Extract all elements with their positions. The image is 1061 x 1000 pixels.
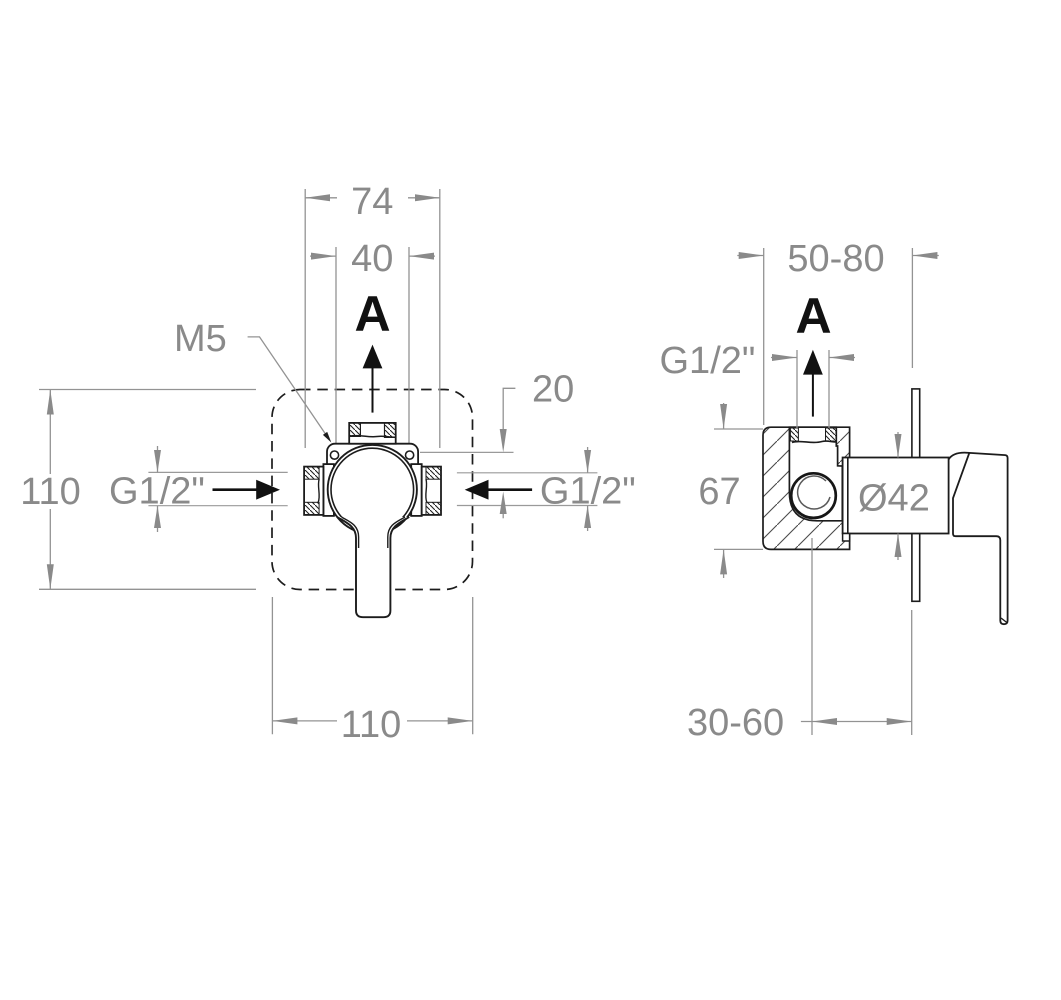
svg-text:110: 110 [341, 704, 402, 746]
dim 110 left: top extension line [39, 389, 256, 391]
dim D42 arrows [895, 432, 902, 560]
right port reference lines [457, 472, 598, 474]
svg-text:110: 110 [20, 471, 81, 513]
dim 50-80: right extension [911, 248, 913, 368]
svg-text:67: 67 [698, 471, 740, 513]
svg-text:40: 40 [351, 238, 393, 280]
svg-text:A: A [795, 288, 831, 344]
svg-text:50-80: 50-80 [787, 238, 884, 280]
dim line 74 [305, 194, 440, 201]
cartridge circle (side, bold) [791, 473, 836, 518]
thread break wavy line [792, 441, 836, 442]
extension line 40 right [408, 247, 410, 443]
extension line 74 left [304, 189, 306, 448]
port width extension lines (side) [796, 350, 798, 428]
cartridge inner arc [798, 476, 830, 509]
left inlet port [304, 464, 334, 516]
main cartridge circle outer [328, 445, 417, 534]
wall recess cavity [789, 427, 842, 521]
handle (front view) outline [337, 517, 409, 617]
dim 67: bottom extension [714, 548, 763, 550]
dim 20: leader and arrows [503, 388, 515, 448]
barrel lower-left step [843, 534, 850, 542]
handle (front view) white mask [337, 517, 409, 617]
dim 67: top extension [714, 428, 763, 430]
dim 50-80 arrows outside [737, 252, 939, 259]
svg-text:Ø42: Ø42 [858, 478, 930, 520]
handle (side view) body [953, 453, 1008, 624]
handle tip mark [1001, 618, 1007, 623]
svg-text:30-60: 30-60 [687, 702, 784, 744]
thread band right pair [826, 428, 837, 441]
port width arrows (side) [771, 354, 855, 361]
dim line 110 left vertical [47, 390, 54, 590]
section arrow A (front) [363, 345, 383, 369]
main cartridge circle inner [331, 448, 414, 531]
svg-text:G1/2": G1/2" [660, 340, 756, 382]
dim 67 arrows outside [720, 403, 727, 578]
extension line 40 left [335, 247, 337, 443]
extension line 74 right [439, 189, 441, 448]
left port reference lines [148, 471, 287, 473]
dim 110 bottom: right extension line [472, 597, 474, 734]
handle cap silhouette arc [949, 453, 970, 460]
top outlet connector [349, 423, 396, 444]
dashed mounting plate outline [272, 390, 473, 590]
svg-text:A: A [354, 286, 390, 342]
trim barrel [843, 458, 949, 534]
dim 30-60: right extension [911, 610, 913, 735]
flow arrow left (black) [213, 488, 259, 491]
dim line 110 bottom [272, 717, 472, 724]
svg-text:74: 74 [351, 181, 393, 223]
svg-text:20: 20 [532, 369, 574, 411]
dim 110 bottom: left extension line [271, 597, 273, 734]
wall block hatched [763, 427, 850, 549]
handle inner fillet left [342, 517, 359, 548]
leader M5 [248, 337, 326, 434]
dim 30-60: left extension [811, 538, 813, 735]
valve body flange [327, 444, 418, 515]
flow arrow right (black) [487, 488, 532, 491]
screw hole left [330, 451, 338, 459]
finished wall thin bar [912, 389, 920, 601]
dim arrows 40 (outside) [310, 253, 435, 260]
dim 50-80: left extension [763, 248, 765, 425]
left port size arrows [154, 446, 161, 532]
screw hole right [406, 451, 414, 459]
right inlet port [411, 464, 441, 516]
barrel end cap line [847, 458, 849, 534]
dim line 30-60 [801, 718, 912, 725]
dim 110 left: bottom extension line [39, 588, 256, 590]
handle inner fillet right [388, 517, 405, 548]
thread band left pair [790, 428, 798, 441]
right port size arrows [584, 447, 591, 531]
svg-text:M5: M5 [174, 318, 227, 360]
section arrow A (side) [803, 350, 823, 375]
